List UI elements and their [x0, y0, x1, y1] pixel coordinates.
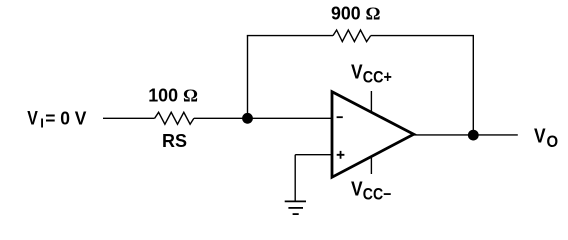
wire feedback left vertical — [247, 36, 249, 119]
svg-text:RS: RS — [162, 131, 187, 151]
svg-text:VCC−: VCC− — [351, 179, 391, 204]
node A junction dot — [242, 113, 253, 124]
wire feedback top right — [371, 35, 474, 37]
op-amp inverting input minus symbol — [337, 116, 343, 118]
VCC- supply stub wire — [370, 156, 372, 174]
wire non-inverting input — [295, 154, 332, 156]
wire RS to node A — [194, 117, 248, 119]
op-amp U1 triangle — [332, 92, 414, 178]
node output junction dot — [468, 130, 479, 141]
wire feedback top left — [247, 35, 333, 37]
VCC+ supply stub wire — [370, 91, 372, 113]
wire output — [414, 134, 518, 136]
svg-text:VO: VO — [534, 126, 558, 152]
wire to ground — [294, 155, 296, 202]
wire input to RS — [103, 117, 155, 119]
wire feedback right vertical — [472, 36, 474, 136]
resistor RS — [155, 112, 194, 124]
resistor 900 ohm — [333, 30, 371, 42]
wire node A to op-amp inverting input — [248, 117, 333, 119]
ground — [285, 201, 306, 214]
svg-text:VCC+: VCC+ — [351, 61, 392, 86]
svg-text:VI= 0 V: VI= 0 V — [27, 109, 86, 131]
svg-text:900 Ω: 900 Ω — [331, 3, 381, 23]
svg-text:100 Ω: 100 Ω — [148, 85, 198, 105]
op-amp non-inverting input plus symbol — [337, 151, 345, 159]
